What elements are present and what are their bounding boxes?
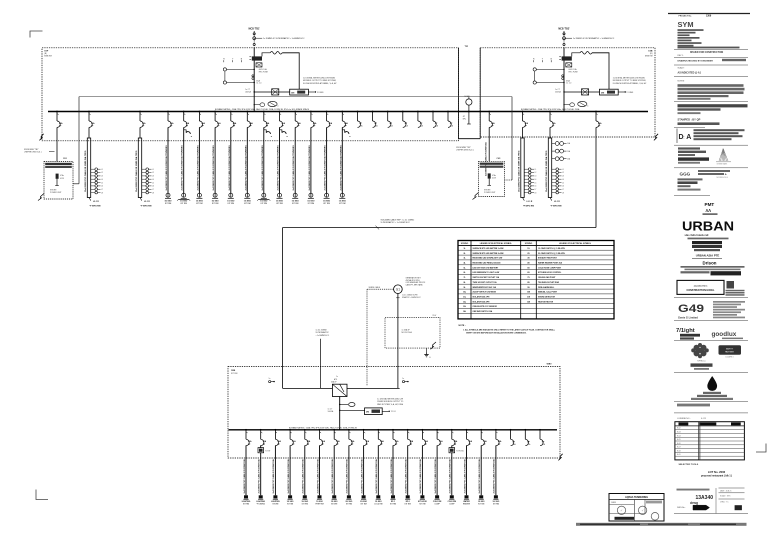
svg-text:L3: L3 [152, 176, 154, 178]
digital meter DM and kWh meter [564, 91, 600, 93]
1EB breaker drop E7 to load 1G SSO [333, 429, 335, 431]
svg-text:2x2.5MM2 PVC CABLE IN 20MM DIA: 2x2.5MM2 PVC CABLE IN 20MM DIA TRUNKING [181, 145, 184, 191]
svg-text:2G 1WAY SWITCH @ 1.2M AFFL: 2G 1WAY SWITCH @ 1.2M AFFL [538, 252, 566, 255]
CU4 earth [426, 348, 428, 352]
svg-text:LOT No. 2006: LOT No. 2006 [708, 470, 726, 474]
svg-text:L2-1 R: L2-1 R [554, 201, 560, 203]
svg-text:L5: L5 [535, 182, 537, 184]
svg-text::: : [683, 135, 684, 141]
wire - incomer TB2 [563, 48, 565, 112]
svg-text:RECESSED LED PANEL 600x600: RECESSED LED PANEL 600x600 [473, 262, 501, 265]
svg-text:KIT RM: KIT RM [390, 503, 397, 505]
svg-text:2x2.5MM2 PVC CABLE IN 20MM DIA: 2x2.5MM2 PVC CABLE IN 20MM DIA [258, 459, 261, 494]
svg-text:2x2.5MM2 PVC CABLE IN 20MM DIA: 2x2.5MM2 PVC CABLE IN 20MM DIA TRUNKING [324, 145, 327, 191]
svg-text:2x2.5MM2 PVC CABLE IN 20MM DIA: 2x2.5MM2 PVC CABLE IN 20MM DIA [316, 459, 319, 494]
breaker drop S12 with socket outlet [341, 111, 343, 113]
svg-text:L3: L3 [562, 176, 564, 178]
svg-text:XLPE/SWA/PVC + 1x 16MM2 ECC: XLPE/SWA/PVC + 1x 16MM2 ECC [381, 221, 411, 224]
svg-text:1x DIGITAL METER (DM) C/W: 1x DIGITAL METER (DM) C/W [377, 398, 403, 401]
svg-text:2x2.5MM2 PVC CABLE IN 20MM DIA: 2x2.5MM2 PVC CABLE IN 20MM DIA [331, 459, 334, 494]
svg-text:( REFER DWG E-01 ): ( REFER DWG E-01 ) [456, 149, 474, 151]
svg-text:ONE WAY SWITCH 10A: ONE WAY SWITCH 10A [473, 310, 493, 313]
svg-text:1x 35MM2 4C XLPE/SWA/PVC + 1x1: 1x 35MM2 4C XLPE/SWA/PVC + 1x16MM2 ECC [573, 37, 615, 40]
CU4 switch break [431, 342, 437, 349]
svg-text:LICENSE NO :: LICENSE NO : [677, 418, 691, 420]
svg-text:L4: L4 [535, 179, 537, 181]
svg-text:LED EMERGENCY LIGHT 2x3W: LED EMERGENCY LIGHT 2x3W [473, 272, 500, 274]
svg-text:URBAN ASIA PTE: URBAN ASIA PTE [696, 253, 720, 257]
svg-text:EXHAUST FAN POINT: EXHAUST FAN POINT [538, 257, 558, 260]
1EB breaker drop E14 to load COLD RM [436, 429, 438, 431]
svg-text:DM: DM [366, 412, 369, 414]
svg-text:KIT RM: KIT RM [261, 203, 268, 205]
svg-text:MANUAL CALL POINT: MANUAL CALL POINT [538, 291, 558, 294]
svg-text:1x DIGITAL METER (DM) C/W RS48: 1x DIGITAL METER (DM) C/W RS485 [303, 77, 335, 80]
svg-text:2x2.5MM2 PVC CABLE IN 20MM DIA: 2x2.5MM2 PVC CABLE IN 20MM DIA TRUNKING [308, 145, 311, 191]
svg-text:2x2.5MM2 PVC CABLE IN 20MM DIA: 2x2.5MM2 PVC CABLE IN 20MM DIA [302, 459, 305, 494]
svg-text:BUSBAR RATING : 250A TPN, 3PH: BUSBAR RATING : 250A TPN, 3PH 415V 50Hz,… [521, 108, 580, 111]
1EB breaker drop E8 to load 2G SSO [348, 429, 350, 431]
svg-text:L2: L2 [535, 172, 537, 174]
svg-text:2x2.5MM2 PVC CABLE IN 20MM DIA: 2x2.5MM2 PVC CABLE IN 20MM DIA [463, 459, 466, 494]
svg-text:LEGEND OF ELECTRICAL SYMBOL: LEGEND OF ELECTRICAL SYMBOL [559, 242, 592, 245]
svg-text:L5: L5 [152, 182, 154, 184]
svg-text:2x2.5MM2 PVC CABLE IN 20MM DIA: 2x2.5MM2 PVC CABLE IN 20MM DIA TRUNKING [292, 145, 295, 191]
1EB breaker drop E4 to load 1G SSO [289, 429, 291, 431]
breaker drop to cabinet CU3 [488, 111, 490, 113]
svg-text:L3: L3 [535, 176, 537, 178]
svg-text:TO BMS: TO BMS [317, 92, 325, 94]
svg-text:DM: DM [291, 92, 294, 94]
svg-text:E-08: E-08 [677, 450, 681, 452]
svg-text:10x2.5MM2 PVC CABLE IN 25MM DI: 10x2.5MM2 PVC CABLE IN 25MM DIA TRKG [545, 150, 548, 192]
svg-text:SYM/NO: SYM/NO [525, 243, 533, 245]
svg-text:MCCB 25KA: MCCB 25KA [402, 331, 413, 334]
svg-text:PARTNER: PARTNER [725, 350, 734, 353]
terminal strip drop R2-2 [549, 111, 551, 113]
title block: license row [677, 404, 710, 407]
CU3 earth break [473, 193, 479, 200]
svg-text:MCB 'TB2': MCB 'TB2' [558, 28, 570, 30]
svg-text:L2: L2 [152, 172, 154, 174]
svg-text:( REFER DWG E-01 ): ( REFER DWG E-01 ) [24, 152, 42, 154]
svg-text:L6: L6 [152, 186, 154, 188]
svg-text:63A 4P: 63A 4P [331, 380, 337, 383]
svg-text:+ 1x16MM2 ECC: + 1x16MM2 ECC [316, 335, 330, 337]
svg-text:SCALE :: SCALE : [678, 67, 686, 70]
svg-text:AS INDICATED @ A1: AS INDICATED @ A1 [678, 71, 702, 74]
1EB spare drop SP3 [539, 429, 541, 431]
svg-text:2x2.5MM2 PVC CABLE IN 20MM DIA: 2x2.5MM2 PVC CABLE IN 20MM DIA TRUNKING [277, 145, 280, 191]
kWh check meter symbol [566, 63, 572, 67]
1EB breaker drop E6 to load 1G SSO [319, 429, 321, 431]
svg-text:'1EB1': '1EB1' [546, 364, 552, 366]
svg-text:DATE : JUN 21: DATE : JUN 21 [720, 490, 731, 493]
svg-text:KIT RM: KIT RM [292, 203, 299, 205]
svg-text:2x2.5MM2 PVC CABLE IN 20MM DIA: 2x2.5MM2 PVC CABLE IN 20MM DIA [478, 459, 481, 494]
svg-text:'TB': 'TB' [465, 46, 469, 48]
svg-text:VERIFY ON SITE BEFORE ANY INST: VERIFY ON SITE BEFORE ANY INSTALLATION W… [466, 331, 527, 334]
breaker drop S9 with socket outlet [294, 111, 296, 113]
svg-text:REV 1 :: REV 1 : [678, 55, 685, 57]
svg-text:SAFETY: SAFETY [726, 348, 734, 351]
svg-text:FIRE ALARM BELL: FIRE ALARM BELL [538, 286, 555, 289]
svg-text:KIT RM: KIT RM [276, 203, 283, 205]
svg-text:NOTE :: NOTE : [459, 325, 466, 327]
svg-text:L5: L5 [101, 182, 103, 184]
svg-text:1309: 1309 [706, 16, 712, 18]
svg-text:KIT RM: KIT RM [196, 203, 203, 205]
1EB breaker drop E13 to load KIT HOOD [422, 429, 424, 431]
submain cable run 1SB to 1EB [595, 127, 597, 227]
1EB breaker drop E9 to load 2G SSO [363, 429, 365, 431]
panel 1SB dashed enclosure [480, 48, 655, 137]
svg-text:1. ALL SYMBOLS ARE INDICATIVE: 1. ALL SYMBOLS ARE INDICATIVE ONLY, REFE… [463, 329, 556, 332]
breaker drop S6 with socket outlet [246, 111, 248, 113]
svg-text:13A340: 13A340 [696, 495, 714, 501]
svg-text:2x2.5MM2 PVC CABLE IN 20MM DIA: 2x2.5MM2 PVC CABLE IN 20MM DIA TRUNKING [165, 145, 168, 191]
wire - ATS normal feed [320, 339, 322, 388]
svg-text:2x2.5MM2 PVC CABLE IN 20MM DIA: 2x2.5MM2 PVC CABLE IN 20MM DIA [360, 459, 363, 494]
svg-text:A: A [686, 134, 691, 141]
svg-text:WATER HEATER POINT 20A: WATER HEATER POINT 20A [538, 262, 563, 265]
MCCB incomer TB2 100A/4P [562, 56, 572, 60]
1EB breaker drop E10 to load 1G SSO [377, 429, 379, 431]
svg-text:E-09: E-09 [677, 454, 681, 456]
svg-text:COMP: COMP [434, 503, 440, 505]
svg-text:G49: G49 [678, 303, 704, 315]
title block top rule [668, 13, 750, 15]
svg-text:AQIS/A.TENDERING: AQIS/A.TENDERING [625, 496, 648, 499]
svg-text:goodlux: goodlux [712, 331, 737, 338]
sheet corner mark bottom-left [36, 490, 48, 500]
svg-text:7/1ight: 7/1ight [676, 328, 695, 334]
isolator circles on strip R2-2 [552, 143, 556, 145]
svg-text:SWITCH SOCKET OUTLET 13A: SWITCH SOCKET OUTLET 13A [473, 276, 500, 279]
contactor on drop S7 [264, 130, 266, 133]
svg-text:DWG No :: DWG No : [677, 507, 686, 509]
svg-text:KIT RM: KIT RM [339, 203, 346, 205]
svg-text:Drison: Drison [703, 261, 717, 266]
svg-text:TEL/DATA OUTLET RJ45: TEL/DATA OUTLET RJ45 [538, 281, 559, 284]
svg-text:PROJECT No.: PROJECT No. [679, 16, 693, 18]
breaker drop S10 with socket outlet [310, 111, 312, 113]
1EB spare drop SP2 [524, 429, 526, 431]
svg-text:2x2.5MM2 PVC CABLE IN 20MM DIA: 2x2.5MM2 PVC CABLE IN 20MM DIA TRUNKING [244, 145, 247, 191]
svg-text:POWER UNIT: POWER UNIT [484, 192, 496, 194]
1EB breaker drop E2 to load LIGHTING [260, 429, 262, 431]
sheet corner mark top-left [30, 31, 43, 38]
CU3 internal meter [488, 173, 491, 178]
svg-text:10x2.5MM2 PVC CABLE IN 25MM DI: 10x2.5MM2 PVC CABLE IN 25MM DIA TRKG [84, 150, 87, 192]
svg-text:E-06: E-06 [677, 443, 681, 445]
metering CT on 1EB [339, 404, 340, 405]
svg-text:CU1: CU1 [63, 158, 67, 160]
svg-text:KITCHEN HOOD CONTROL: KITCHEN HOOD CONTROL [538, 272, 562, 274]
svg-text:bizSAFE 3: bizSAFE 3 [726, 356, 734, 359]
svg-text:*F WFG RM: *F WFG RM [141, 205, 152, 207]
breaker drop to control cabinet CU1 [56, 111, 58, 113]
svg-text:RECESSED LED DOWNLIGHT 12W: RECESSED LED DOWNLIGHT 12W [473, 258, 503, 260]
svg-text:KIT RM: KIT RM [405, 503, 412, 505]
svg-text:L7: L7 [535, 189, 537, 191]
title block: clover logo [691, 343, 709, 358]
terminal strip drop L2-1 [88, 111, 90, 113]
svg-text:2x2.5MM2 PVC CABLE IN 20MM DIA: 2x2.5MM2 PVC CABLE IN 20MM DIA [287, 459, 290, 494]
svg-text:PREP RM: PREP RM [315, 503, 324, 505]
svg-text:CHKD : TC: CHKD : TC [720, 501, 729, 503]
svg-text:COMP: COMP [449, 503, 455, 505]
svg-text:TO BMS: TO BMS [626, 92, 634, 94]
svg-text:TWIN SOCKET OUTLET 13A: TWIN SOCKET OUTLET 13A [473, 281, 498, 284]
spare breaker drop SP1 [357, 111, 359, 113]
generator G1 [394, 285, 403, 294]
1EB breaker drop E16 to load WATER [466, 429, 468, 431]
spare breaker drop SP7 [447, 111, 449, 113]
svg-text:KIT RM: KIT RM [302, 503, 309, 505]
symbol schedule table [458, 241, 614, 319]
digital meter DM and kWh meter [254, 91, 290, 93]
svg-text:MORRISVILLE: MORRISVILLE [717, 177, 729, 179]
break mark at 1SB lower-right [654, 134, 658, 141]
svg-text:L5: L5 [562, 182, 564, 184]
svg-text:✓: ✓ [641, 508, 644, 512]
svg-text:2x2.5MM2 PVC CABLE IN 20MM DIA: 2x2.5MM2 PVC CABLE IN 20MM DIA TRUNKING [261, 145, 264, 191]
svg-text:COLD RM: COLD RM [374, 503, 383, 505]
svg-text:FLUSH MOUNTED AT PANEL, V, A,: FLUSH MOUNTED AT PANEL, V, A, HZ [303, 82, 337, 85]
svg-text:2x2.5MM2 PVC CABLE IN 20MM DIA: 2x2.5MM2 PVC CABLE IN 20MM DIA [390, 459, 393, 494]
svg-text:BMS SYSTEM, V, A, HZ, KWH: BMS SYSTEM, V, A, HZ, KWH [377, 403, 403, 406]
svg-text:HEATER: HEATER [463, 502, 471, 505]
svg-text:SMOKE DETECTOR: SMOKE DETECTOR [538, 297, 556, 299]
svg-text:100/5A: 100/5A [328, 410, 334, 413]
svg-text:20A DP SWITCH C/W NEON: 20A DP SWITCH C/W NEON [473, 291, 497, 294]
svg-text:HEAT DETECTOR: HEAT DETECTOR [538, 300, 554, 303]
svg-text:KIT RM: KIT RM [493, 503, 500, 505]
svg-text:L2-1 R: L2-1 R [527, 201, 533, 203]
svg-text:200/5A: 200/5A [555, 91, 561, 94]
breaker drop S2 with socket outlet [183, 111, 185, 113]
kWh check meter symbol [256, 63, 262, 67]
svg-text:L4: L4 [152, 179, 154, 181]
1EB breaker drop E11 to load EF-1 [392, 429, 394, 431]
svg-text:2x2.5MM2 PVC CABLE IN 20MM DIA: 2x2.5MM2 PVC CABLE IN 20MM DIA [272, 459, 275, 494]
breaker drop S11 with socket outlet [326, 111, 328, 113]
svg-text:ISSUED FOR CONSTRUCTION: ISSUED FOR CONSTRUCTION [690, 52, 724, 54]
breaker drop S7 with socket outlet [263, 111, 265, 113]
svg-text:L6: L6 [535, 186, 537, 188]
title block: revision rows [674, 48, 748, 50]
svg-text:BFa: BFa [463, 119, 466, 121]
svg-text:L4: L4 [101, 179, 103, 181]
svg-text:LED EXIT SIGN C/W BATTERY: LED EXIT SIGN C/W BATTERY [473, 266, 500, 269]
wire - ATS output [339, 397, 341, 430]
svg-text:CL 1.0: CL 1.0 [566, 83, 571, 85]
svg-text:CHKD: CHKD [611, 502, 617, 504]
spare breaker drop SP2 [372, 111, 374, 113]
svg-text:TO HOOD: TO HOOD [456, 451, 465, 453]
svg-text:1x 63A 4P: 1x 63A 4P [402, 328, 411, 331]
svg-text:CANOPY, 8HR TANK: CANOPY, 8HR TANK [406, 284, 424, 287]
svg-text:KIT RM: KIT RM [478, 503, 485, 505]
svg-text:2x2.5MM2 PVC CABLE IN 20MM DIA: 2x2.5MM2 PVC CABLE IN 20MM DIA TRUNKING [196, 145, 199, 191]
svg-text:b: b [587, 105, 588, 107]
CT pair above busbar [570, 103, 575, 107]
svg-text:L6: L6 [101, 186, 103, 188]
svg-text:MCB 'TB1': MCB 'TB1' [249, 28, 261, 30]
SPD surge loop [572, 53, 580, 57]
svg-text:2x2.5MM2 PVC CABLE IN 20MM DIA: 2x2.5MM2 PVC CABLE IN 20MM DIA [243, 459, 246, 494]
svg-text:KIT RM: KIT RM [287, 503, 294, 505]
svg-text:*F WFG RM: *F WFG RM [551, 205, 562, 207]
svg-text:CL 1.0: CL 1.0 [256, 83, 261, 85]
1EB breaker drop E5 to load 1G SSO [304, 429, 306, 431]
panel 1EB dashed enclosure [228, 367, 560, 459]
panel 1SF dashed enclosure [42, 48, 458, 141]
svg-text:L1: L1 [152, 169, 154, 171]
svg-text:XLPE/SWA/PVC: XLPE/SWA/PVC [316, 331, 330, 334]
svg-text:2x2.5MM2 PVC CABLE IN 20MM DIA: 2x2.5MM2 PVC CABLE IN 20MM DIA [375, 459, 378, 494]
breaker drop S5 with socket outlet [230, 111, 232, 113]
svg-text:L8: L8 [101, 192, 103, 194]
break mark at 1EB lower-right [558, 454, 562, 461]
ATS changeover switch [332, 384, 347, 396]
svg-text:STORE: STORE [331, 503, 338, 505]
sheet corner mark bottom-right [756, 444, 766, 453]
title block: BCA award box [677, 280, 724, 294]
svg-text:✓: ✓ [620, 508, 623, 512]
svg-text:PMT: PMT [705, 202, 715, 207]
svg-text:SURFACE MTD LED BATTEN 1x18W: SURFACE MTD LED BATTEN 1x18W [473, 247, 504, 250]
breaker drop S8 with socket outlet [279, 111, 281, 113]
svg-text:ISOLATOR 32A 3PH: ISOLATOR 32A 3PH [473, 300, 491, 303]
svg-text:L1: L1 [535, 169, 537, 171]
title block: DEA engineer block [676, 129, 678, 144]
title block: dark plaque [719, 345, 742, 355]
MCCB incomer TB1 100A/4P [252, 56, 262, 60]
svg-text:KIT RM: KIT RM [361, 503, 368, 505]
contactor on drop S8 [280, 130, 282, 133]
svg-text:DRAWN/CHECKED BY ENGINEER: DRAWN/CHECKED BY ENGINEER [678, 59, 714, 62]
svg-text:10x2.5MM2 PVC CABLE IN 25MM DI: 10x2.5MM2 PVC CABLE IN 25MM DIA TRKG [518, 150, 521, 192]
svg-text:▲: ▲ [724, 172, 727, 176]
svg-text:site civils hotels rail: site civils hotels rail [685, 234, 709, 237]
svg-text:KIT RM: KIT RM [212, 203, 219, 205]
spare breaker drop SP5 [417, 111, 419, 113]
svg-text:*F WFG RM: *F WFG RM [523, 205, 534, 207]
svg-text:ISOLATOR 20A 1PH: ISOLATOR 20A 1PH [473, 296, 491, 299]
svg-text:SELECTED TOOLS: SELECTED TOOLS [679, 464, 699, 466]
svg-text:CONSTRUCTION EXCEL: CONSTRUCTION EXCEL [687, 289, 715, 292]
svg-text:FLUSH MOUNTED AT PANEL, V, A,: FLUSH MOUNTED AT PANEL, V, A, HZ [613, 82, 647, 85]
spare breaker drop SP6 [432, 111, 434, 113]
title block: drawing reference table [675, 422, 745, 460]
voltmeter fuse tap circles [533, 68, 536, 71]
svg-text:TO E1: TO E1 [391, 411, 396, 413]
1EB spare drop SP1 [510, 429, 512, 431]
title block: drawing number block [677, 489, 710, 491]
svg-text:KIT RM: KIT RM [244, 203, 251, 205]
svg-text:MSB RM: MSB RM [44, 56, 52, 58]
svg-text:NFPA Co: NFPA Co [697, 360, 706, 363]
svg-text:2x2.5MM2 PVC CABLE IN 20MM DIA: 2x2.5MM2 PVC CABLE IN 20MM DIA [405, 459, 408, 494]
svg-text:SWA/PVC +16MM2 ECC: SWA/PVC +16MM2 ECC [402, 296, 422, 299]
CT marks on incomer [252, 75, 254, 77]
svg-text:L2: L2 [101, 172, 103, 174]
svg-text:HRC FUSE: HRC FUSE [569, 71, 579, 73]
svg-text:KIT RM: KIT RM [165, 203, 172, 205]
main busbar 1SF/1SB [48, 111, 648, 113]
svg-text:L6: L6 [562, 186, 564, 188]
svg-text:COLD ROOM COMP POINT: COLD ROOM COMP POINT [538, 267, 562, 269]
svg-text:KIT RM: KIT RM [243, 503, 250, 505]
title block: copyright paragraph [678, 104, 748, 107]
breaker drop S3 with socket outlet [199, 111, 201, 113]
svg-text:KIT RM: KIT RM [228, 203, 235, 205]
svg-text:L7: L7 [152, 189, 154, 191]
svg-text:SPARE CABLE: SPARE CABLE [369, 286, 381, 289]
wire - generator feed [397, 294, 399, 389]
CU1 earth break [38, 194, 44, 201]
svg-text:DM: DM [601, 92, 604, 94]
svg-text:E-04: E-04 [677, 435, 681, 437]
svg-text:KIT RM: KIT RM [323, 203, 330, 205]
svg-text:POWER UNIT: POWER UNIT [50, 192, 62, 194]
contactor on drop S2 [184, 130, 186, 133]
svg-text:1EB: 1EB [231, 370, 236, 372]
svg-text:SYM/NO: SYM/NO [461, 243, 469, 245]
svg-text:E-02: E-02 [677, 428, 681, 430]
spare breaker drop SP4 [402, 111, 404, 113]
svg-text:E-07: E-07 [677, 447, 681, 449]
terminal strip drop L2-2 [139, 111, 141, 113]
svg-text:b: b [278, 105, 279, 107]
CT marks on incomer [562, 75, 564, 77]
terminal strip drop R2-1 [522, 111, 524, 113]
svg-text:L2: L2 [562, 172, 564, 174]
svg-text:CEILING FAN POINT: CEILING FAN POINT [538, 276, 556, 279]
svg-text:URBAN: URBAN [682, 220, 734, 234]
svg-text:L2-1 R: L2-1 R [93, 201, 99, 203]
contactor on drop S12 [342, 130, 344, 133]
svg-text:2x2.5MM2 PVC CABLE IN 20MM DIA: 2x2.5MM2 PVC CABLE IN 20MM DIA [434, 459, 437, 494]
svg-text:CU3: CU3 [497, 158, 501, 160]
1EB breaker drop E15 to load COLD RM [451, 429, 453, 431]
svg-text:SUB-MAIN CABLE REF : 1x 4C 25M: SUB-MAIN CABLE REF : 1x 4C 25MM2 [381, 219, 415, 222]
break mark at 1SF lower-left [39, 134, 43, 141]
svg-text:E-05: E-05 [677, 439, 681, 441]
contactor box on drop E2 [258, 448, 264, 453]
svg-text:GGG: GGG [680, 172, 691, 177]
svg-text:TO KIT: TO KIT [265, 451, 270, 453]
svg-text:STAMPED : BY QP: STAMPED : BY QP [678, 117, 701, 121]
svg-text:1x: 1x [269, 378, 271, 380]
svg-text:drwg: drwg [690, 501, 698, 505]
svg-text:HRC FUSE: HRC FUSE [259, 71, 269, 73]
svg-text:L2-1 R: L2-1 R [144, 201, 150, 203]
svg-text:L1: L1 [101, 169, 103, 171]
svg-text:Genie G Limited: Genie G Limited [678, 316, 698, 320]
svg-text:E-03: E-03 [677, 432, 681, 434]
svg-text:WEATHERPROOF SSO 13A: WEATHERPROOF SSO 13A [473, 286, 497, 289]
svg-text:KIT RM: KIT RM [308, 203, 315, 205]
svg-text:2x2.5MM2 PVC CABLE IN 20MM DIA: 2x2.5MM2 PVC CABLE IN 20MM DIA [449, 459, 452, 494]
submain breaker drop to panel 1EB [595, 111, 597, 113]
breaker drop S1 with socket outlet [167, 111, 169, 113]
title block: PUB water drop logo [708, 377, 717, 391]
svg-text:E-123: E-123 [701, 418, 706, 420]
wire - incomer TB1 [253, 48, 255, 112]
